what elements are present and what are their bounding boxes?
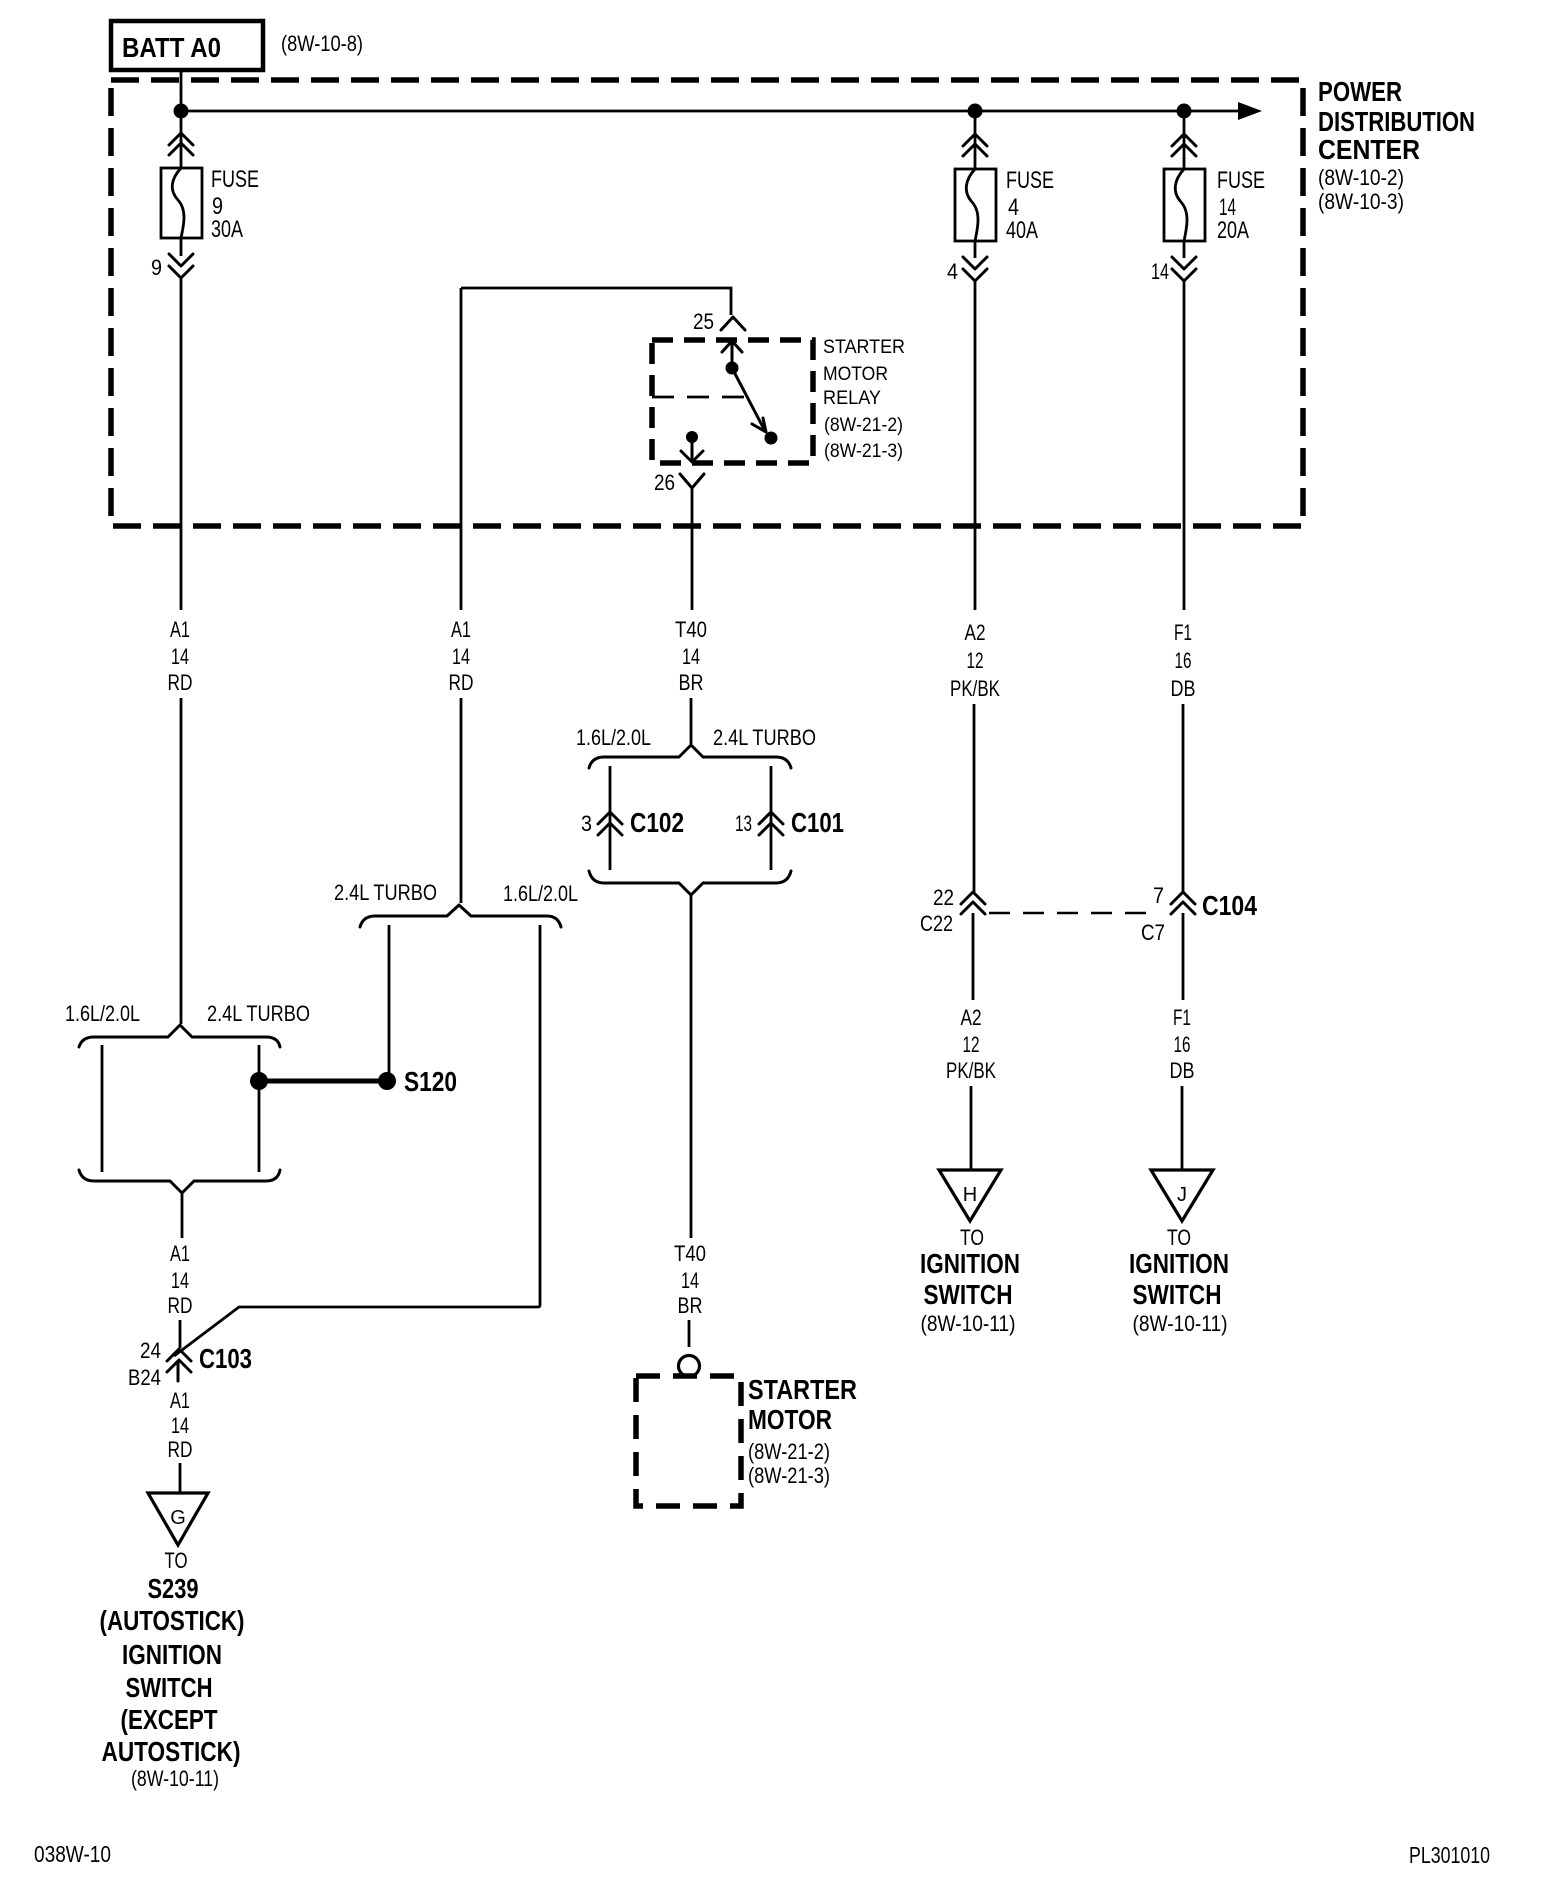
label A1 14 RD (above C103) bbox=[168, 1241, 193, 1318]
svg-text:(8W-10-11): (8W-10-11) bbox=[131, 1766, 219, 1791]
wire 2.4L branch to C101 bbox=[770, 766, 773, 870]
off-page connector H triangle bbox=[939, 1170, 1001, 1221]
wire A1 down to engine split brace bbox=[180, 698, 183, 1024]
svg-text:C7: C7 bbox=[1141, 920, 1165, 945]
wire to starter eyelet bbox=[688, 1320, 691, 1347]
off-page connector J triangle bbox=[1151, 1170, 1213, 1221]
svg-text:MOTOR: MOTOR bbox=[823, 364, 888, 385]
svg-text:038W-10: 038W-10 bbox=[34, 1841, 111, 1867]
wire batt feed into PDC bbox=[180, 70, 183, 111]
wire fuse 14 to pin 14 bbox=[1183, 241, 1186, 258]
svg-text:(8W-21-3): (8W-21-3) bbox=[748, 1463, 830, 1488]
svg-text:DB: DB bbox=[1171, 676, 1196, 701]
svg-text:24: 24 bbox=[140, 1338, 161, 1363]
label TO IGNITION SWITCH (8W-10-11) (J) bbox=[1129, 1225, 1229, 1336]
dashed link C22 to C7 bbox=[989, 912, 1156, 915]
svg-text:RD: RD bbox=[449, 670, 474, 695]
label POWER DISTRIBUTION CENTER bbox=[1318, 76, 1475, 214]
wire fuse 4 to pin 4 bbox=[974, 241, 977, 258]
connector C102 chevrons bbox=[598, 812, 622, 835]
svg-text:A2: A2 bbox=[965, 620, 986, 645]
svg-text:14: 14 bbox=[171, 1413, 189, 1438]
svg-text:12: 12 bbox=[963, 1032, 980, 1057]
connector chevrons above fuse 9 bbox=[169, 133, 193, 155]
svg-text:(EXCEPT: (EXCEPT bbox=[121, 1704, 218, 1735]
svg-text:DB: DB bbox=[1170, 1058, 1195, 1083]
label A2 12 PK/BK (bottom) bbox=[946, 1005, 996, 1083]
relay common contact dot bbox=[726, 362, 739, 375]
label TO IGNITION SWITCH (8W-10-11) (H) bbox=[920, 1225, 1020, 1336]
svg-text:13: 13 bbox=[735, 811, 752, 836]
svg-text:(8W-10-2): (8W-10-2) bbox=[1318, 165, 1404, 190]
starter motor dashed box bbox=[636, 1376, 741, 1506]
wire F1 below C104 bbox=[1182, 913, 1185, 1000]
svg-text:C103: C103 bbox=[199, 1343, 252, 1374]
svg-text:TO: TO bbox=[165, 1548, 188, 1573]
svg-text:PK/BK: PK/BK bbox=[950, 676, 1000, 701]
wire 2.4L turbo branch down to S120 bbox=[388, 925, 391, 1074]
svg-text:4: 4 bbox=[947, 259, 958, 284]
svg-text:(8W-10-11): (8W-10-11) bbox=[1133, 1311, 1228, 1336]
svg-text:2.4L TURBO: 2.4L TURBO bbox=[334, 880, 437, 905]
wire T40 to engine split bbox=[690, 698, 693, 744]
power distribution center dashed box bbox=[111, 80, 1303, 526]
relay pin 26 contact dot bbox=[686, 431, 698, 443]
svg-text:RD: RD bbox=[168, 670, 193, 695]
connector chevrons above fuse 4 bbox=[963, 134, 987, 156]
svg-text:T40: T40 bbox=[674, 1241, 706, 1266]
label FUSE 14 20A bbox=[1217, 167, 1265, 244]
wire 2.4L turbo branch to S120 bbox=[258, 1045, 261, 1172]
wire A2 below C22 bbox=[972, 913, 975, 1000]
connector C101 chevrons bbox=[759, 812, 783, 835]
svg-text:F1: F1 bbox=[1173, 1005, 1191, 1030]
connector C103 chevrons bbox=[167, 1349, 191, 1381]
svg-text:FUSE: FUSE bbox=[1217, 167, 1265, 194]
brace T40 split top bbox=[589, 745, 791, 768]
svg-text:AUTOSTICK): AUTOSTICK) bbox=[102, 1736, 241, 1767]
fuse F4 bbox=[955, 169, 996, 241]
svg-text:STARTER: STARTER bbox=[823, 337, 905, 358]
svg-text:PK/BK: PK/BK bbox=[946, 1058, 996, 1083]
wire 1.6L branch left bbox=[101, 1045, 104, 1172]
brace middle engine split bbox=[360, 905, 561, 927]
wire F1 to C104 bbox=[1182, 704, 1185, 892]
relay pin 25 internal arrow bbox=[722, 341, 742, 366]
svg-text:A1: A1 bbox=[170, 1241, 190, 1266]
svg-text:CENTER: CENTER bbox=[1318, 134, 1420, 165]
label A2 12 PK/BK (top) bbox=[950, 620, 1000, 701]
wire 1.6L branch to C102 bbox=[609, 766, 612, 870]
svg-text:9: 9 bbox=[151, 255, 162, 280]
brace T40 split bottom bbox=[589, 871, 791, 895]
pin 9 chevrons bbox=[169, 254, 193, 278]
fuse F14 bbox=[1164, 169, 1205, 241]
wire branch to relay pin 25 bbox=[461, 288, 731, 315]
svg-text:(8W-21-2): (8W-21-2) bbox=[824, 415, 903, 436]
svg-text:MOTOR: MOTOR bbox=[748, 1404, 832, 1435]
wire bus to fuse 14 bbox=[1183, 111, 1186, 169]
svg-text:F1: F1 bbox=[1174, 620, 1192, 645]
relay pin 26 internal arrow bbox=[681, 437, 703, 462]
svg-text:A1: A1 bbox=[451, 617, 471, 642]
svg-text:RELAY: RELAY bbox=[823, 388, 881, 409]
svg-text:(8W-10-11): (8W-10-11) bbox=[921, 1311, 1016, 1336]
brace left engine split top bbox=[79, 1025, 280, 1047]
svg-text:(8W-10-8): (8W-10-8) bbox=[281, 31, 363, 56]
svg-text:A2: A2 bbox=[961, 1005, 982, 1030]
svg-text:H: H bbox=[963, 1184, 977, 1206]
svg-text:IGNITION: IGNITION bbox=[920, 1248, 1020, 1279]
svg-text:DISTRIBUTION: DISTRIBUTION bbox=[1318, 106, 1475, 137]
relay internal divider bbox=[652, 396, 750, 399]
svg-text:12: 12 bbox=[967, 648, 984, 673]
label T40 14 BR (bottom) bbox=[674, 1241, 706, 1318]
svg-text:A1: A1 bbox=[170, 617, 190, 642]
svg-text:BR: BR bbox=[679, 670, 704, 695]
svg-text:S239: S239 bbox=[148, 1573, 199, 1604]
svg-text:SWITCH: SWITCH bbox=[126, 1672, 213, 1703]
svg-text:BATT A0: BATT A0 bbox=[122, 32, 221, 63]
wire to off-page G bbox=[179, 1463, 182, 1493]
svg-text:14: 14 bbox=[681, 1268, 699, 1293]
label STARTER MOTOR (8W-21-2) (8W-21-3) bbox=[748, 1374, 857, 1488]
svg-text:14: 14 bbox=[452, 644, 470, 669]
wire bus to fuse 9 bbox=[180, 111, 183, 168]
wire bus A0 horizontal bbox=[181, 110, 1242, 113]
wire A1 column 2 down bbox=[460, 288, 463, 610]
svg-text:7: 7 bbox=[1153, 883, 1164, 908]
svg-text:RD: RD bbox=[168, 1437, 193, 1462]
eyelet terminal bbox=[679, 1356, 700, 1377]
svg-text:J: J bbox=[1177, 1184, 1187, 1206]
svg-text:1.6L/2.0L: 1.6L/2.0L bbox=[65, 1001, 140, 1026]
svg-text:(AUTOSTICK): (AUTOSTICK) bbox=[100, 1605, 245, 1636]
off-page connector G triangle bbox=[148, 1493, 208, 1545]
svg-text:C104: C104 bbox=[1202, 890, 1257, 921]
wire T40 from relay pin 26 bbox=[691, 488, 694, 610]
label STARTER MOTOR RELAY (8W-21-2) (8W-21-3) bbox=[823, 337, 905, 462]
svg-text:B24: B24 bbox=[128, 1365, 161, 1390]
relay pin 25 chevron bbox=[721, 317, 745, 330]
label F1 16 DB (top) bbox=[1171, 620, 1196, 701]
connector C22 chevrons bbox=[961, 892, 985, 914]
svg-text:40A: 40A bbox=[1006, 217, 1038, 244]
pin 14 chevrons bbox=[1172, 257, 1196, 281]
wire above C103 bbox=[179, 1320, 182, 1348]
svg-text:S120: S120 bbox=[404, 1066, 457, 1097]
svg-text:1.6L/2.0L: 1.6L/2.0L bbox=[503, 881, 578, 906]
svg-text:14: 14 bbox=[682, 644, 700, 669]
svg-text:(8W-21-3): (8W-21-3) bbox=[824, 441, 903, 462]
svg-text:25: 25 bbox=[693, 309, 714, 334]
svg-text:FUSE: FUSE bbox=[211, 166, 259, 193]
svg-text:22: 22 bbox=[933, 885, 954, 910]
svg-text:(8W-10-3): (8W-10-3) bbox=[1318, 189, 1404, 214]
svg-text:STARTER: STARTER bbox=[748, 1374, 857, 1405]
svg-text:TO: TO bbox=[1167, 1225, 1191, 1250]
svg-text:T40: T40 bbox=[675, 617, 707, 642]
svg-text:26: 26 bbox=[654, 470, 675, 495]
svg-text:TO: TO bbox=[960, 1225, 984, 1250]
wire to C103 bbox=[181, 1194, 184, 1238]
svg-text:G: G bbox=[170, 1507, 186, 1529]
label T40 14 BR (top) bbox=[675, 617, 707, 695]
wire A1 col2 down to split bbox=[460, 698, 463, 903]
svg-text:A1: A1 bbox=[170, 1388, 190, 1413]
svg-text:16: 16 bbox=[1175, 648, 1192, 673]
svg-text:14: 14 bbox=[1151, 259, 1169, 284]
junction dot A bbox=[174, 104, 189, 119]
svg-text:BR: BR bbox=[678, 1293, 703, 1318]
svg-text:2.4L TURBO: 2.4L TURBO bbox=[207, 1001, 310, 1026]
wire bus to fuse 4 bbox=[974, 111, 977, 169]
svg-text:SWITCH: SWITCH bbox=[924, 1279, 1013, 1310]
junction dot C bbox=[1177, 104, 1192, 119]
brace left engine split bottom bbox=[79, 1170, 280, 1193]
svg-text:IGNITION: IGNITION bbox=[1129, 1248, 1229, 1279]
svg-text:C101: C101 bbox=[791, 807, 844, 838]
relay switch blade bbox=[732, 368, 766, 432]
svg-text:30A: 30A bbox=[211, 216, 243, 243]
wire A2 down bbox=[974, 281, 977, 610]
junction dot B bbox=[968, 104, 983, 119]
pin 4 chevrons bbox=[963, 257, 987, 281]
svg-text:16: 16 bbox=[1174, 1032, 1191, 1057]
label A1 14 RD (fuse 9 column) bbox=[168, 617, 193, 695]
node BATT A0 feed box bbox=[111, 21, 263, 70]
svg-text:C102: C102 bbox=[630, 807, 684, 838]
svg-text:RD: RD bbox=[168, 1293, 193, 1318]
wire A2 to off-page H bbox=[970, 1086, 973, 1170]
svg-text:C22: C22 bbox=[920, 911, 953, 936]
splice S120 bbox=[250, 1066, 457, 1097]
label F1 16 DB (bottom) bbox=[1170, 1005, 1195, 1083]
label FUSE 4 40A bbox=[1006, 167, 1054, 244]
relay blade end dot bbox=[765, 432, 778, 445]
svg-text:SWITCH: SWITCH bbox=[1133, 1279, 1222, 1310]
svg-text:20A: 20A bbox=[1217, 217, 1249, 244]
bus arrowhead bbox=[1238, 102, 1262, 120]
svg-text:1.6L/2.0L: 1.6L/2.0L bbox=[576, 725, 651, 750]
wire 1.6L branch down and across to C103 bbox=[174, 925, 540, 1356]
svg-text:2.4L TURBO: 2.4L TURBO bbox=[713, 725, 816, 750]
svg-text:IGNITION: IGNITION bbox=[122, 1639, 222, 1670]
wire F1 to off-page J bbox=[1181, 1086, 1184, 1170]
label A1 14 RD (below C103) bbox=[168, 1388, 193, 1462]
svg-text:14: 14 bbox=[171, 644, 189, 669]
wire A2 to C22 bbox=[973, 704, 976, 892]
wire F1 down bbox=[1183, 281, 1186, 610]
svg-text:FUSE: FUSE bbox=[1006, 167, 1054, 194]
label A1 14 RD (column 2) bbox=[449, 617, 474, 695]
connector chevrons above fuse 14 bbox=[1172, 134, 1196, 156]
svg-text:3: 3 bbox=[581, 811, 592, 836]
relay pin 26 chevron bbox=[680, 474, 704, 488]
fuse F9 bbox=[161, 168, 202, 238]
svg-text:14: 14 bbox=[171, 1268, 189, 1293]
label TO S239 (AUTOSTICK) IGNITION SWITCH (EXCEPT AUTOSTICK) (8W-10-11) bbox=[100, 1548, 245, 1791]
wire fuse 9 to pin 9 bbox=[180, 238, 183, 256]
label FUSE 9 30A bbox=[211, 166, 259, 243]
starter motor relay dashed box bbox=[652, 340, 813, 463]
connector C104 chevrons bbox=[1171, 892, 1195, 914]
svg-text:(8W-21-2): (8W-21-2) bbox=[748, 1439, 830, 1464]
wire T40 down to starter motor bbox=[690, 895, 693, 1238]
svg-text:PL301010: PL301010 bbox=[1409, 1842, 1490, 1868]
wire A1 14 RD down from fuse 9 bbox=[180, 278, 183, 610]
svg-text:POWER: POWER bbox=[1318, 76, 1402, 107]
